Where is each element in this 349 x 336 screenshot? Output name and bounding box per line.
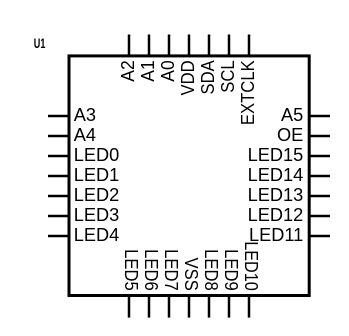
svg-text:EXTCLK: EXTCLK bbox=[238, 60, 258, 125]
pin A5 wire bbox=[309, 115, 330, 118]
svg-text:VDD: VDD bbox=[178, 60, 198, 95]
pin SDA wire bbox=[208, 35, 211, 56]
svg-text:LED9: LED9 bbox=[221, 249, 241, 291]
pin A1 wire bbox=[148, 35, 151, 56]
svg-text:A5: A5 bbox=[281, 105, 303, 125]
svg-text:LED7: LED7 bbox=[161, 249, 181, 291]
svg-text:U1: U1 bbox=[34, 36, 46, 51]
svg-text:LED10: LED10 bbox=[241, 241, 261, 291]
pin LED8 wire bbox=[208, 296, 211, 318]
svg-text:LED15: LED15 bbox=[248, 145, 304, 165]
svg-text:OE: OE bbox=[277, 125, 303, 145]
pin LED12 wire bbox=[309, 215, 330, 218]
svg-text:SDA: SDA bbox=[198, 60, 218, 95]
svg-text:LED3: LED3 bbox=[74, 205, 120, 225]
pin A0 wire bbox=[168, 35, 171, 56]
pin LED5 wire bbox=[128, 296, 131, 318]
pin LED7 wire bbox=[168, 296, 171, 318]
svg-text:LED4: LED4 bbox=[74, 225, 120, 245]
svg-text:LED12: LED12 bbox=[248, 205, 304, 225]
svg-text:VSS: VSS bbox=[181, 258, 201, 291]
pin EXTCLK wire bbox=[248, 35, 251, 56]
svg-text:LED5: LED5 bbox=[121, 249, 141, 291]
pin LED3 wire bbox=[48, 215, 69, 218]
pin VSS wire bbox=[188, 296, 191, 318]
svg-text:LED1: LED1 bbox=[74, 165, 120, 185]
svg-text:A0: A0 bbox=[158, 60, 178, 81]
svg-text:LED6: LED6 bbox=[141, 249, 161, 291]
pin A4 wire bbox=[48, 135, 69, 138]
svg-text:A2: A2 bbox=[118, 60, 138, 81]
pin LED0 wire bbox=[48, 155, 69, 158]
pin LED6 wire bbox=[148, 296, 151, 318]
pin A3 wire bbox=[48, 115, 69, 118]
svg-text:A3: A3 bbox=[74, 105, 96, 125]
pin LED13 wire bbox=[309, 195, 330, 198]
svg-text:LED13: LED13 bbox=[248, 185, 304, 205]
pin OE wire bbox=[309, 135, 330, 138]
svg-text:LED0: LED0 bbox=[74, 145, 120, 165]
pin LED10 wire bbox=[248, 296, 251, 318]
IC U1 body bbox=[69, 56, 309, 296]
svg-text:A4: A4 bbox=[74, 125, 96, 145]
pin LED2 wire bbox=[48, 195, 69, 198]
pin LED4 wire bbox=[48, 235, 69, 238]
svg-text:LED8: LED8 bbox=[201, 249, 221, 291]
pin LED11 wire bbox=[309, 235, 330, 238]
svg-text:A1: A1 bbox=[138, 60, 158, 81]
pin VDD wire bbox=[188, 35, 191, 56]
pin SCL wire bbox=[228, 35, 231, 56]
svg-text:LED2: LED2 bbox=[74, 185, 120, 205]
svg-text:LED14: LED14 bbox=[248, 165, 304, 185]
pin LED1 wire bbox=[48, 175, 69, 178]
pin A2 wire bbox=[128, 35, 131, 56]
pin LED9 wire bbox=[228, 296, 231, 318]
pin LED14 wire bbox=[309, 175, 330, 178]
svg-text:SCL: SCL bbox=[218, 60, 238, 92]
pin LED15 wire bbox=[309, 155, 330, 158]
